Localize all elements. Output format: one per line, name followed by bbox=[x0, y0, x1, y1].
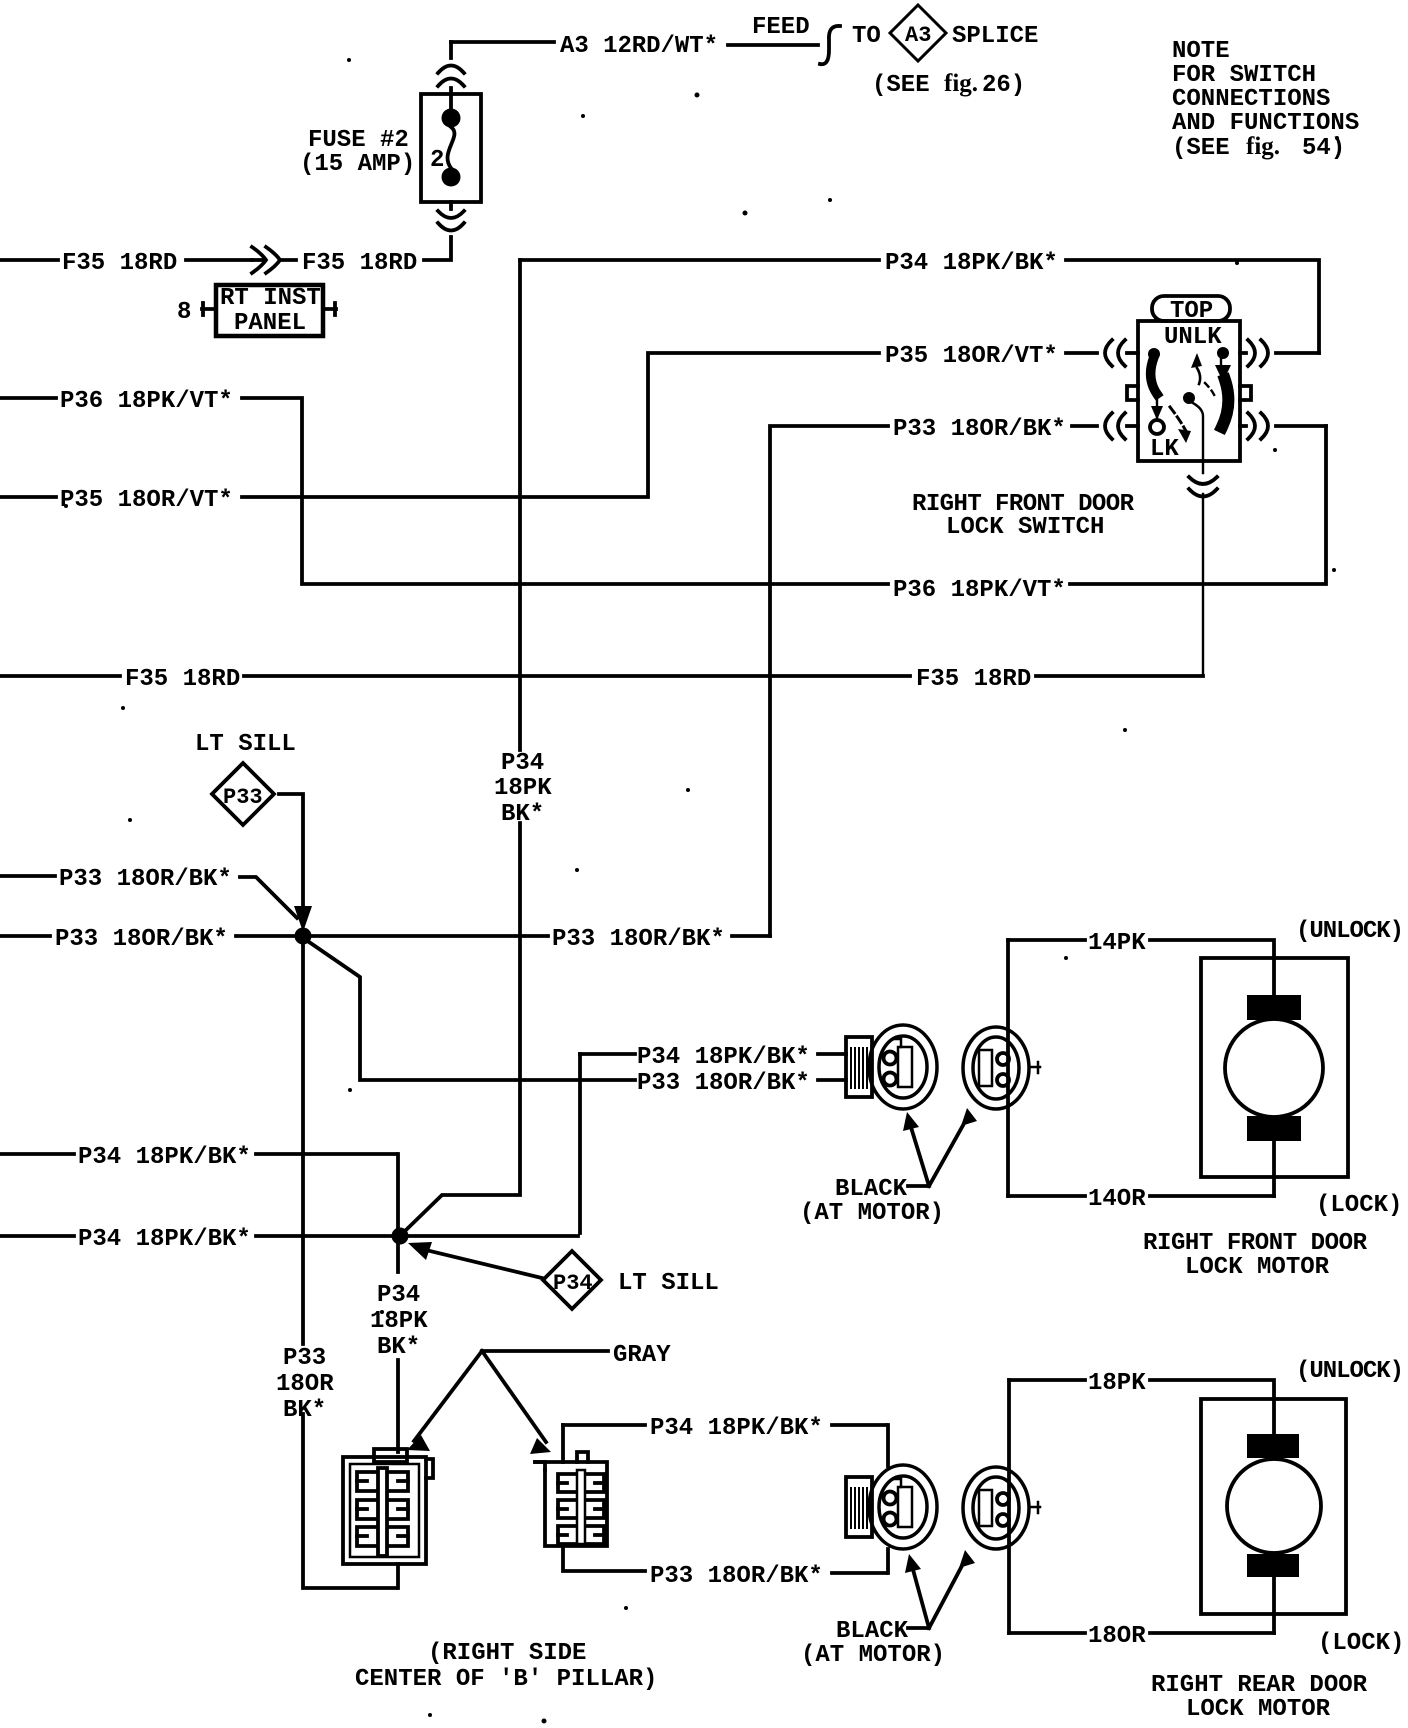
svg-text:fig.: fig. bbox=[944, 70, 978, 97]
svg-text:(UNLOCK): (UNLOCK) bbox=[1296, 1358, 1404, 1385]
svg-text:BK*: BK* bbox=[501, 801, 544, 828]
svg-text:(SEE: (SEE bbox=[872, 72, 930, 99]
svg-text:NOTE: NOTE bbox=[1172, 38, 1230, 65]
svg-text:LOCK MOTOR: LOCK MOTOR bbox=[1186, 1696, 1331, 1723]
svg-text:SPLICE: SPLICE bbox=[952, 23, 1038, 50]
svg-text:RIGHT REAR DOOR: RIGHT REAR DOOR bbox=[1151, 1672, 1368, 1699]
svg-text:(SEE: (SEE bbox=[1172, 135, 1230, 162]
svg-text:UNLK: UNLK bbox=[1164, 324, 1222, 351]
svg-text:(LOCK): (LOCK) bbox=[1316, 1192, 1402, 1219]
svg-text:CONNECTIONS: CONNECTIONS bbox=[1172, 86, 1330, 113]
svg-text:LT SILL: LT SILL bbox=[195, 731, 296, 758]
svg-text:P33: P33 bbox=[283, 1345, 326, 1372]
svg-text:LK: LK bbox=[1150, 436, 1179, 463]
svg-text:P34 18PK/BK*: P34 18PK/BK* bbox=[650, 1415, 823, 1442]
svg-text:LOCK MOTOR: LOCK MOTOR bbox=[1185, 1254, 1330, 1281]
svg-text:P33 18OR/BK*: P33 18OR/BK* bbox=[893, 416, 1066, 443]
svg-text:P34 18PK/BK*: P34 18PK/BK* bbox=[637, 1044, 810, 1071]
svg-text:8: 8 bbox=[177, 299, 191, 326]
svg-text:FEED: FEED bbox=[752, 14, 810, 41]
svg-text:BK*: BK* bbox=[377, 1334, 420, 1361]
svg-text:14OR: 14OR bbox=[1088, 1186, 1146, 1213]
svg-text:18PK: 18PK bbox=[370, 1308, 428, 1335]
svg-text:BK*: BK* bbox=[283, 1397, 326, 1424]
svg-text:GRAY: GRAY bbox=[613, 1342, 671, 1369]
svg-text:(AT MOTOR): (AT MOTOR) bbox=[800, 1200, 944, 1227]
svg-text:LOCK SWITCH: LOCK SWITCH bbox=[946, 514, 1104, 541]
svg-text:TOP: TOP bbox=[1170, 298, 1213, 325]
svg-text:18PK: 18PK bbox=[494, 775, 552, 802]
svg-text:RT INST: RT INST bbox=[220, 285, 321, 312]
svg-text:P34: P34 bbox=[553, 1271, 593, 1296]
svg-text:P33 18OR/BK*: P33 18OR/BK* bbox=[59, 866, 232, 893]
svg-text:(AT MOTOR): (AT MOTOR) bbox=[801, 1642, 945, 1669]
svg-text:18OR: 18OR bbox=[276, 1371, 334, 1398]
svg-text:18PK: 18PK bbox=[1088, 1370, 1146, 1397]
svg-text:F35 18RD: F35 18RD bbox=[916, 666, 1031, 693]
svg-text:14PK: 14PK bbox=[1088, 930, 1146, 957]
svg-text:CENTER OF 'B' PILLAR): CENTER OF 'B' PILLAR) bbox=[355, 1666, 657, 1693]
svg-text:(15 AMP): (15 AMP) bbox=[300, 151, 415, 178]
svg-text:P34: P34 bbox=[501, 750, 544, 777]
svg-text:RIGHT FRONT DOOR: RIGHT FRONT DOOR bbox=[1143, 1230, 1368, 1257]
svg-text:BLACK: BLACK bbox=[835, 1176, 908, 1203]
svg-text:P36 18PK/VT*: P36 18PK/VT* bbox=[60, 388, 233, 415]
svg-text:P33: P33 bbox=[223, 785, 263, 810]
svg-text:LT SILL: LT SILL bbox=[618, 1270, 719, 1297]
svg-text:P33 18OR/BK*: P33 18OR/BK* bbox=[552, 926, 725, 953]
svg-text:FUSE #2: FUSE #2 bbox=[308, 127, 409, 154]
svg-text:54): 54) bbox=[1302, 135, 1345, 162]
svg-text:P35 18OR/VT*: P35 18OR/VT* bbox=[885, 343, 1058, 370]
svg-text:PANEL: PANEL bbox=[234, 310, 306, 337]
svg-text:P36 18PK/VT*: P36 18PK/VT* bbox=[893, 577, 1066, 604]
svg-text:2: 2 bbox=[430, 147, 444, 174]
svg-text:F35 18RD: F35 18RD bbox=[125, 666, 240, 693]
svg-text:P33 18OR/BK*: P33 18OR/BK* bbox=[637, 1070, 810, 1097]
svg-text:18OR: 18OR bbox=[1088, 1623, 1146, 1650]
svg-text:FOR SWITCH: FOR SWITCH bbox=[1172, 62, 1316, 89]
svg-text:P34: P34 bbox=[377, 1282, 420, 1309]
svg-text:TO: TO bbox=[852, 23, 881, 50]
svg-text:fig.: fig. bbox=[1246, 133, 1280, 160]
svg-text:P33 18OR/BK*: P33 18OR/BK* bbox=[650, 1563, 823, 1590]
svg-text:A3: A3 bbox=[905, 23, 931, 48]
svg-text:P34 18PK/BK*: P34 18PK/BK* bbox=[78, 1226, 251, 1253]
svg-text:26): 26) bbox=[982, 72, 1025, 99]
svg-text:(RIGHT SIDE: (RIGHT SIDE bbox=[428, 1640, 586, 1667]
svg-text:(LOCK): (LOCK) bbox=[1318, 1630, 1404, 1657]
svg-text:P34 18PK/BK*: P34 18PK/BK* bbox=[885, 250, 1058, 277]
svg-text:BLACK: BLACK bbox=[836, 1618, 909, 1645]
svg-text:F35 18RD: F35 18RD bbox=[302, 250, 417, 277]
svg-text:(UNLOCK): (UNLOCK) bbox=[1296, 918, 1404, 945]
svg-text:P35 18OR/VT*: P35 18OR/VT* bbox=[60, 487, 233, 514]
svg-text:A3 12RD/WT*: A3 12RD/WT* bbox=[560, 33, 718, 60]
svg-text:P34 18PK/BK*: P34 18PK/BK* bbox=[78, 1144, 251, 1171]
svg-text:F35 18RD: F35 18RD bbox=[62, 250, 177, 277]
svg-text:P33 18OR/BK*: P33 18OR/BK* bbox=[55, 926, 228, 953]
